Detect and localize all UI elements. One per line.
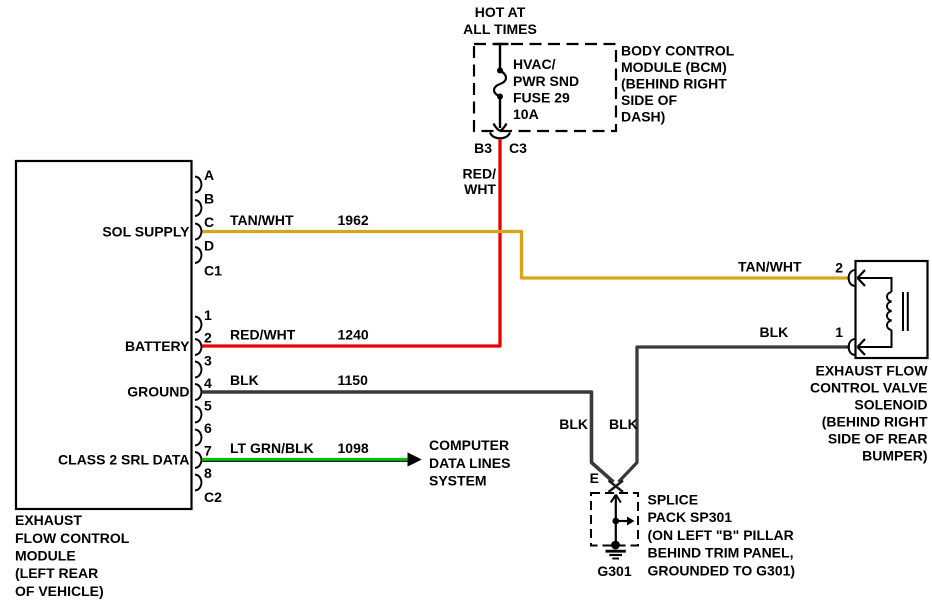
- svg-text:BEHIND TRIM PANEL,: BEHIND TRIM PANEL,: [648, 545, 794, 561]
- svg-text:ALL TIMES: ALL TIMES: [463, 21, 537, 37]
- svg-text:BLK: BLK: [609, 416, 638, 432]
- svg-text:SYSTEM: SYSTEM: [429, 473, 487, 489]
- svg-text:SIDE OF: SIDE OF: [621, 92, 677, 108]
- wire label TAN/WHT 1962: [230, 212, 369, 228]
- svg-text:A: A: [204, 167, 214, 183]
- svg-text:BLK: BLK: [760, 324, 789, 340]
- svg-text:FLOW CONTROL: FLOW CONTROL: [15, 530, 130, 546]
- solenoid coil winding: [858, 278, 892, 347]
- connector C1 pin brackets A-D: [195, 177, 202, 264]
- ground G301 terminal dot: [611, 541, 620, 550]
- wire label BLK 1150: [230, 372, 368, 388]
- wire label RED/WHT 1240: [230, 327, 369, 343]
- svg-text:5: 5: [204, 398, 212, 414]
- BCM location label: [621, 43, 735, 125]
- wire color label RED/WHT vertical: [463, 166, 497, 198]
- svg-text:SPLICE: SPLICE: [648, 492, 699, 508]
- splice tap junction dot with right arrow: [612, 517, 634, 526]
- svg-text:MODULE (BCM): MODULE (BCM): [621, 59, 727, 75]
- svg-text:PACK SP301: PACK SP301: [648, 509, 733, 525]
- svg-text:4: 4: [204, 375, 212, 391]
- wire label LT GRN/BLK 1098: [230, 440, 369, 456]
- splice E crossing mark: [609, 481, 624, 493]
- svg-text:HVAC/: HVAC/: [513, 56, 556, 72]
- svg-text:TAN/WHT: TAN/WHT: [230, 212, 294, 228]
- connector C2 pin brackets 1-8: [195, 317, 202, 491]
- svg-text:B3: B3: [474, 140, 492, 156]
- node HOT AT ALL TIMES label: [463, 4, 537, 37]
- svg-text:2: 2: [835, 260, 843, 276]
- svg-text:CONTROL VALVE: CONTROL VALVE: [810, 380, 927, 396]
- wire TAN/WHT from pin C to solenoid pin 2: [202, 232, 850, 279]
- svg-text:WHT: WHT: [464, 181, 496, 197]
- exhaust flow control module box: [16, 161, 192, 509]
- svg-text:BODY CONTROL: BODY CONTROL: [621, 43, 735, 59]
- svg-text:LT GRN/BLK: LT GRN/BLK: [230, 440, 314, 456]
- svg-text:8: 8: [204, 465, 212, 481]
- svg-text:BLK: BLK: [559, 416, 588, 432]
- svg-text:DASH): DASH): [621, 109, 665, 125]
- svg-text:G301: G301: [597, 563, 631, 579]
- ground symbol: [606, 551, 626, 558]
- svg-text:BLK: BLK: [230, 372, 259, 388]
- svg-text:1: 1: [204, 307, 212, 323]
- svg-text:C: C: [204, 214, 214, 230]
- svg-text:B: B: [204, 191, 214, 207]
- svg-text:D: D: [204, 238, 214, 254]
- solenoid location label: [810, 363, 928, 464]
- svg-text:RED/: RED/: [463, 166, 497, 182]
- svg-text:COMPUTER: COMPUTER: [429, 437, 509, 453]
- solenoid core lines: [903, 292, 908, 331]
- svg-text:PWR SND: PWR SND: [513, 73, 579, 89]
- solenoid pin 1 connector cup and arrow: [849, 339, 866, 355]
- wire RED/WHT vertical from fuse: [202, 140, 500, 347]
- svg-text:1: 1: [835, 324, 843, 340]
- svg-text:TAN/WHT: TAN/WHT: [738, 259, 802, 275]
- connector C3 female cup: [490, 133, 510, 139]
- svg-text:C1: C1: [204, 263, 222, 279]
- svg-text:2: 2: [204, 330, 212, 346]
- svg-text:(ON LEFT "B" PILLAR: (ON LEFT "B" PILLAR: [648, 527, 794, 543]
- svg-text:MODULE: MODULE: [15, 548, 76, 564]
- svg-text:EXHAUST: EXHAUST: [15, 512, 82, 528]
- svg-text:3: 3: [204, 353, 212, 369]
- svg-text:DATA LINES: DATA LINES: [429, 455, 510, 471]
- svg-text:1150: 1150: [338, 372, 369, 388]
- svg-text:C3: C3: [509, 140, 527, 156]
- module pin function labels: [58, 224, 190, 468]
- svg-text:7: 7: [204, 443, 212, 459]
- svg-text:GROUND: GROUND: [127, 384, 189, 400]
- body control module BCM dashed box: [474, 44, 616, 131]
- splice pack SP301 dashed box: [591, 493, 638, 546]
- svg-text:E: E: [590, 470, 599, 486]
- svg-text:(BEHIND RIGHT: (BEHIND RIGHT: [822, 414, 928, 430]
- svg-text:10A: 10A: [513, 106, 539, 122]
- svg-text:HOT AT: HOT AT: [475, 4, 526, 20]
- svg-text:FUSE 29: FUSE 29: [513, 90, 570, 106]
- svg-text:(BEHIND RIGHT: (BEHIND RIGHT: [621, 76, 727, 92]
- black tracer stripe on LT GRN/BLK wire: [202, 460, 409, 462]
- wire BLK ground from pin 4 to splice: [202, 392, 614, 482]
- svg-text:1240: 1240: [338, 327, 369, 343]
- svg-text:SOLENOID: SOLENOID: [854, 397, 927, 413]
- solenoid pin 2 connector cup and arrow: [849, 270, 866, 286]
- svg-text:SOL SUPPLY: SOL SUPPLY: [102, 224, 190, 240]
- svg-text:(LEFT REAR: (LEFT REAR: [15, 565, 98, 581]
- splice pack location label: [648, 492, 796, 579]
- svg-text:EXHAUST FLOW: EXHAUST FLOW: [816, 363, 929, 379]
- fuse value label: [513, 56, 579, 122]
- svg-text:6: 6: [204, 420, 212, 436]
- computer data lines system label: [429, 437, 510, 489]
- svg-text:BUMPER): BUMPER): [862, 448, 927, 464]
- svg-text:GROUNDED TO G301): GROUNDED TO G301): [648, 563, 796, 579]
- module location label: [15, 512, 130, 599]
- wire BLK from solenoid pin 1 to splice: [619, 347, 851, 482]
- arrow to computer data lines: [408, 452, 422, 466]
- svg-text:BATTERY: BATTERY: [125, 338, 190, 354]
- fuse F29 (HVAC/PWR SND FUSE 29 10A): [494, 44, 509, 131]
- wire LT GRN/BLK class 2 data: [202, 458, 409, 461]
- svg-text:1098: 1098: [338, 440, 369, 456]
- svg-text:1962: 1962: [338, 212, 369, 228]
- svg-text:SIDE OF REAR: SIDE OF REAR: [828, 431, 928, 447]
- svg-text:RED/WHT: RED/WHT: [230, 327, 296, 343]
- svg-text:C2: C2: [204, 489, 222, 505]
- exhaust flow control valve solenoid box: [856, 261, 928, 358]
- splice internal bus with up arrow: [611, 495, 621, 546]
- svg-text:OF VEHICLE): OF VEHICLE): [15, 583, 104, 599]
- svg-text:CLASS 2 SRL DATA: CLASS 2 SRL DATA: [58, 452, 189, 468]
